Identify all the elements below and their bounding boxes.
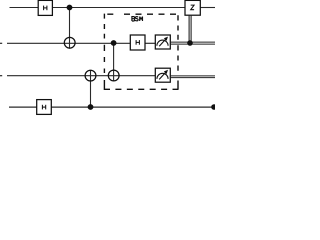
CNOT2 control dot on q3 — [88, 104, 94, 110]
CNOT3 control dot on q1 — [111, 40, 117, 46]
wire q3 segment left — [9, 106, 37, 108]
CNOT3 target on q2 — [108, 70, 119, 81]
CNOT2 q3-q2 vertical wire — [90, 70, 92, 107]
measurement gate M1 on q1 — [155, 35, 170, 49]
H gate H1 on q0 — [38, 0, 52, 15]
CNOT1 control dot on q0 — [67, 5, 73, 11]
BSM box bottom dashed edge — [104, 88, 179, 90]
wire q0 segment right — [201, 7, 216, 9]
wire q2 edge tick — [0, 75, 2, 77]
wire q2 segment — [7, 75, 155, 77]
classical double wire from M1 — [170, 42, 215, 44]
classical double wire vertical to Z gate — [189, 15, 191, 43]
BSM box left dashed edge — [103, 14, 105, 90]
wire q1 edge tick — [0, 42, 2, 44]
BSM box right dashed edge — [177, 15, 179, 89]
H gate H2 on q3 — [37, 100, 52, 115]
wire q0 segment left — [10, 7, 39, 9]
control dot on q3 at right edge — [211, 104, 217, 110]
Z gate on q0 — [185, 0, 200, 15]
CNOT2 target on q2 — [85, 70, 96, 81]
CNOT1 target on q1 — [64, 37, 75, 48]
wire q1 segment H to meter — [145, 42, 155, 44]
classical double wire from M2 — [170, 76, 215, 78]
wire q1 segment left — [7, 42, 130, 44]
CNOT3 q1-q2 vertical wire — [113, 43, 115, 81]
wire q0 segment middle — [53, 7, 186, 9]
label BSM — [132, 17, 143, 21]
classical wire junction dot — [187, 40, 193, 46]
CNOT1 q0-q1 vertical wire — [69, 8, 71, 49]
wire q3 segment right — [52, 106, 216, 108]
H gate H3 on q1 inside BSM — [130, 35, 145, 50]
measurement gate M2 on q2 — [155, 68, 170, 82]
BSM box top dashed edge — [107, 13, 176, 15]
